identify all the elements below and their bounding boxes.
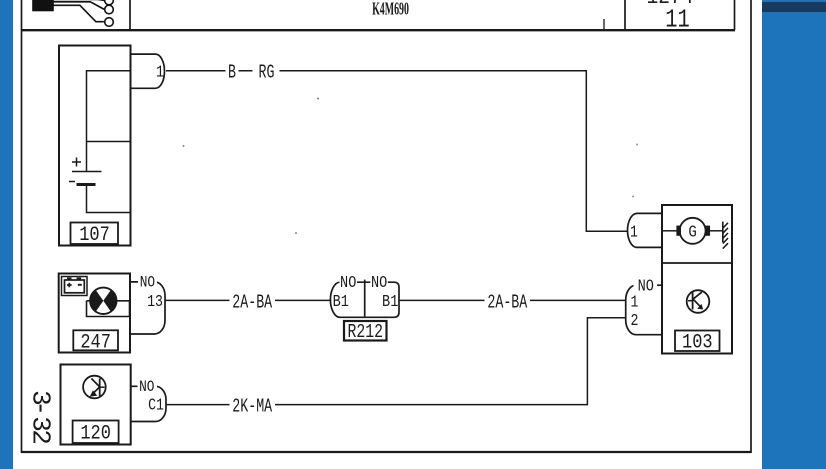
pin 13 bubble xyxy=(130,282,165,334)
battery pictogram inner xyxy=(65,280,85,293)
svg-text:2: 2 xyxy=(631,313,639,331)
right half bubble B1 xyxy=(365,282,399,317)
svg-text:B1: B1 xyxy=(333,291,349,311)
header title cell divider xyxy=(603,19,605,30)
svg-text:C1: C1 xyxy=(148,397,164,415)
blue side strip left xyxy=(0,0,13,469)
blue side area right xyxy=(762,0,826,469)
wire 2A-BA from 247 pin13 to R212 xyxy=(165,299,330,301)
pin C1 bubble xyxy=(131,386,166,421)
navy band top right xyxy=(762,2,826,12)
label box 103 xyxy=(675,331,720,352)
mirrored K tick xyxy=(99,386,105,388)
K upper diagonal xyxy=(693,292,702,299)
fan blade left sector xyxy=(90,290,103,312)
pin label NO xyxy=(634,279,658,292)
battery internal wire to case xyxy=(87,185,131,213)
wire B-RG from 107 pin1 to 103 pin1 xyxy=(166,71,628,231)
svg-text:120: 120 xyxy=(80,422,111,445)
svg-text:107: 107 xyxy=(79,224,110,247)
frame bottom line xyxy=(21,451,751,453)
center divider xyxy=(364,280,366,318)
K arrow shaft xyxy=(694,300,702,309)
battery pictogram plus xyxy=(67,283,72,288)
mirrored K bar xyxy=(99,379,101,397)
generator circle G xyxy=(680,218,706,244)
wire 2A-BA from R212 to 103 pin1 xyxy=(399,299,626,301)
label box 107 xyxy=(71,223,119,245)
box 247 xyxy=(59,274,130,353)
NO label right xyxy=(370,276,388,288)
fan mount bracket xyxy=(87,301,131,317)
svg-text:NO: NO xyxy=(638,276,654,296)
solenoid circle K xyxy=(687,290,710,313)
pin NO/1/2 bubble xyxy=(626,285,662,335)
left half bubble B1 xyxy=(330,282,364,317)
chassis ground xyxy=(722,222,724,243)
fan blade right sector xyxy=(103,290,116,312)
svg-text:-: - xyxy=(26,400,56,416)
label box R212 xyxy=(344,321,387,341)
wire label 2K-MA xyxy=(230,397,276,413)
wire label B xyxy=(226,63,239,79)
svg-text:B1: B1 xyxy=(382,291,398,311)
svg-text:2A-BA: 2A-BA xyxy=(232,291,272,313)
battery pictogram terminals xyxy=(67,277,81,280)
box 107 xyxy=(59,46,131,246)
battery plus plate xyxy=(72,171,102,173)
mirrored K arrow shaft xyxy=(92,387,100,394)
internal wire from pin 1 xyxy=(87,71,131,172)
svg-text:247: 247 xyxy=(80,331,111,354)
svg-text:K4M690: K4M690 xyxy=(372,0,409,19)
minus sign xyxy=(69,181,75,183)
battery pictogram outer xyxy=(62,277,88,296)
NO label left xyxy=(340,276,358,288)
svg-text:1: 1 xyxy=(631,294,639,312)
brush right xyxy=(705,226,710,236)
pin label NO xyxy=(138,380,158,392)
svg-text:NO: NO xyxy=(340,273,356,293)
svg-text:1: 1 xyxy=(630,224,638,242)
svg-text:2: 2 xyxy=(26,429,56,445)
svg-text:NO: NO xyxy=(140,274,155,292)
label box 247 xyxy=(73,330,118,350)
header number box left edge xyxy=(624,0,626,30)
frame left line xyxy=(21,0,23,453)
wire label RG xyxy=(253,63,280,79)
svg-text:G: G xyxy=(688,223,696,242)
battery minus plate xyxy=(77,183,96,186)
header icon box divider xyxy=(129,0,131,30)
svg-text:11: 11 xyxy=(665,5,689,34)
svg-text:B: B xyxy=(228,61,236,83)
pin label NO xyxy=(138,275,157,287)
wire to generator xyxy=(662,230,678,232)
wire label 2A-BA left xyxy=(230,293,276,309)
scan speckles xyxy=(317,98,319,100)
svg-text:2A-BA: 2A-BA xyxy=(487,291,527,313)
svg-text:103: 103 xyxy=(682,331,713,354)
header number box right edge xyxy=(734,0,736,30)
svg-text:2K-MA: 2K-MA xyxy=(232,395,272,417)
frame top header line xyxy=(21,29,735,31)
svg-text:NO: NO xyxy=(371,273,387,293)
K bar xyxy=(692,292,694,310)
frame right line xyxy=(750,0,752,453)
mirrored K upper diagonal xyxy=(91,379,99,387)
internal divider xyxy=(87,141,131,143)
pin 1 bubble top xyxy=(628,213,663,247)
svg-text:RG: RG xyxy=(259,61,275,83)
internal divider xyxy=(662,262,732,264)
sensor circle xyxy=(83,376,106,399)
pin 1 bubble of 107 xyxy=(131,54,165,88)
svg-text:NO: NO xyxy=(139,379,154,397)
fan motor circle xyxy=(90,288,116,314)
K tick xyxy=(688,300,693,302)
arrowhead xyxy=(90,390,98,397)
header connector icon xyxy=(33,0,113,26)
svg-text:R212: R212 xyxy=(348,323,384,344)
svg-text:13: 13 xyxy=(147,294,163,312)
wire 2K-MA from 120 pinC1 to 103 pin2 xyxy=(166,318,626,405)
label box 120 xyxy=(73,421,119,444)
box 120 xyxy=(61,365,131,445)
brush left xyxy=(676,226,681,236)
wire to ground xyxy=(710,230,723,232)
left margin page ref 3-32 (rotated) xyxy=(26,390,56,445)
arrowhead xyxy=(697,304,703,310)
svg-text:1: 1 xyxy=(156,62,164,82)
wire label 2A-BA right xyxy=(485,293,531,309)
battery pictogram minus xyxy=(78,284,82,286)
plus sign xyxy=(72,158,81,167)
box 103 xyxy=(662,205,732,354)
